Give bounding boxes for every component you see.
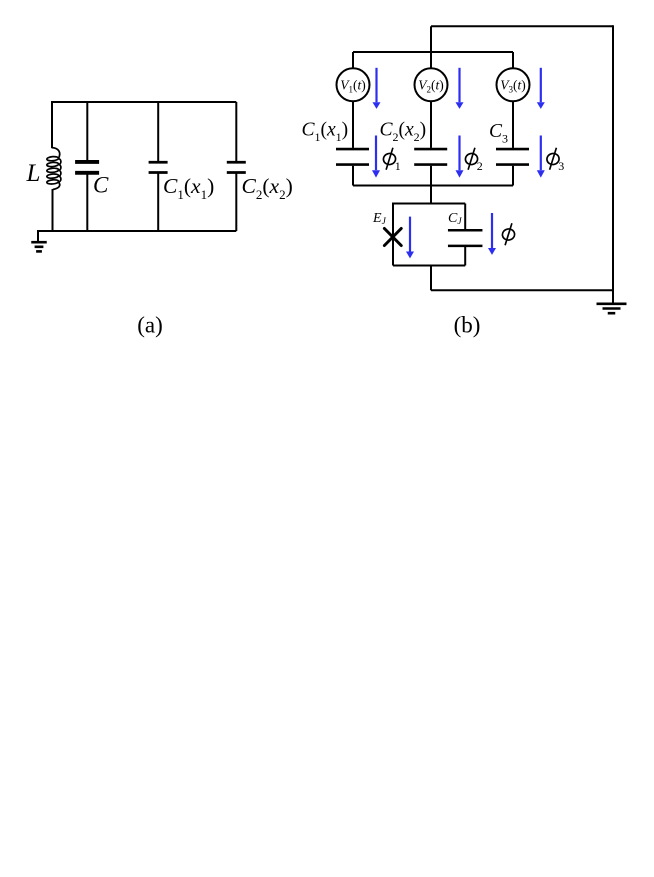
svg-text:1: 1 [395, 159, 401, 173]
svg-text:3: 3 [558, 159, 564, 173]
svg-text:C1(x1): C1(x1) [302, 119, 349, 144]
svg-text:(a): (a) [137, 313, 163, 338]
svg-text:C2(x2): C2(x2) [380, 119, 427, 144]
svg-text:V1(t): V1(t) [340, 77, 366, 94]
svg-text:C2(x2): C2(x2) [242, 174, 293, 202]
svg-text:V3(t): V3(t) [500, 77, 526, 94]
svg-text:C: C [93, 173, 109, 198]
svg-text:C1(x1): C1(x1) [163, 174, 214, 202]
svg-text:L: L [26, 160, 41, 187]
svg-text:V2(t): V2(t) [418, 77, 444, 94]
svg-text:(b): (b) [454, 313, 481, 338]
svg-text:2: 2 [477, 159, 483, 173]
